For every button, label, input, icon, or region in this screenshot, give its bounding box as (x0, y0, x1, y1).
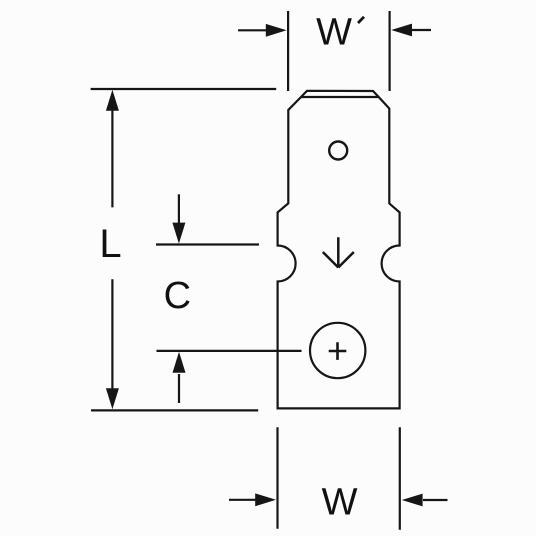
label W' (316, 12, 364, 54)
svg-text:W: W (316, 12, 352, 54)
svg-text:L: L (99, 222, 121, 266)
dimension C lower reference line (leader to stud hole center) (157, 350, 302, 352)
dimension W' left extension line (287, 11, 289, 91)
dimension L bottom extension line (91, 409, 258, 411)
terminal outline (278, 91, 400, 409)
dimension C down arrow (172, 194, 185, 243)
terminal tip bevel line (301, 96, 379, 98)
dimension C upper reference line (156, 243, 259, 245)
dimension W' right extension line (389, 11, 391, 91)
dimension W' left arrow (238, 24, 287, 37)
dimension L line lower segment with down arrowhead (106, 279, 119, 409)
stud hole crosshair circle (310, 323, 365, 378)
insertion direction arrow (323, 237, 354, 267)
stud hole crosshair plus (329, 342, 347, 360)
dimension L line upper segment with up arrowhead (106, 90, 119, 208)
svg-text:C: C (164, 275, 191, 317)
dimension W left arrow (229, 493, 276, 506)
dimension W right extension line (399, 427, 401, 529)
dimension W left extension line (276, 427, 278, 529)
dimension L top extension line (91, 88, 277, 90)
svg-text:W: W (322, 482, 358, 524)
dimension W right arrow (402, 494, 448, 507)
dimension C up arrow (173, 352, 186, 403)
dimension W' right arrow (391, 24, 431, 37)
terminal pilot hole (329, 142, 347, 160)
